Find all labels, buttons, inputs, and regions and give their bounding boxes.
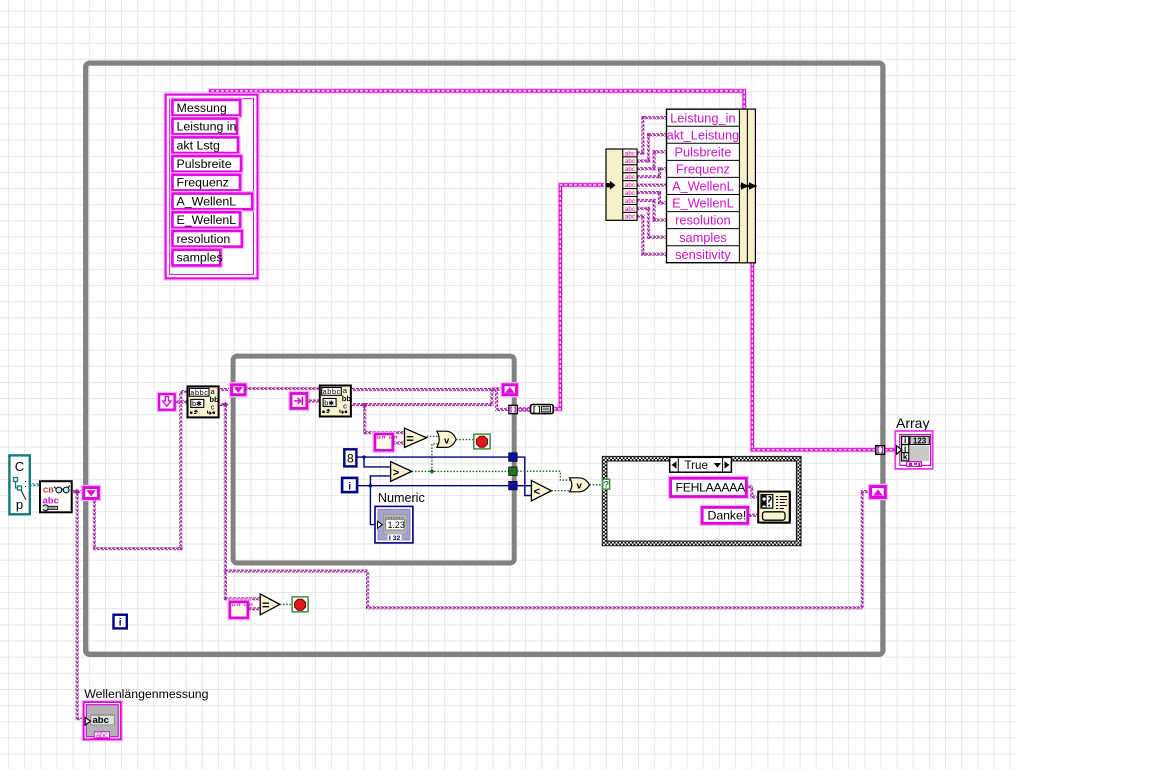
wire: build-array up to index array input: [553, 185, 604, 409]
svg-text:b✱: b✱: [192, 399, 202, 408]
string element "Pulsbreite": [173, 156, 242, 172]
tab constant: [291, 394, 307, 409]
case selector terminal ?: [603, 479, 610, 490]
svg-text:abc: abc: [625, 182, 636, 189]
inner loop iteration terminal i: [342, 478, 357, 492]
svg-text:Leistung in: Leistung in: [177, 120, 237, 134]
stop button 1: [474, 434, 490, 449]
outer right shift register: [871, 487, 886, 498]
wire: green tunnel to or2: [517, 471, 603, 491]
empty string constant 1: [375, 434, 398, 450]
svg-text:p: p: [16, 497, 23, 512]
svg-text:samples: samples: [679, 230, 727, 245]
svg-text:Pulsbreite: Pulsbreite: [177, 157, 232, 171]
svg-text:abc: abc: [625, 206, 636, 213]
case selector label "True": [670, 457, 732, 472]
string element "A_WellenL": [173, 194, 253, 210]
junction dot: [362, 455, 365, 458]
array tunnel [] on inner loop border: [509, 405, 517, 413]
wire: gt output (green dotted) to green tunnel with branch up to or1: [412, 444, 509, 472]
svg-text:resolution: resolution: [177, 232, 231, 246]
svg-text:v: v: [444, 435, 450, 446]
blue tunnel 1 (8): [509, 453, 517, 461]
case structure: [602, 456, 801, 545]
wire: outer SR down, right, up into match node 1: [93, 390, 188, 550]
svg-text:8: 8: [347, 451, 354, 465]
wire: Danke! to dialog: [748, 514, 759, 517]
svg-text:Array: Array: [896, 415, 929, 431]
wire: scan node to outer left shift register: [72, 490, 85, 493]
svg-text:abc: abc: [625, 214, 636, 221]
scan/match node (CB abc glasses wrench): [40, 481, 72, 512]
svg-text:Danke!: Danke!: [708, 509, 747, 523]
wire: match1 output a to inner left shift register: [219, 388, 232, 391]
string constant FEHLAAAAA: [671, 478, 747, 496]
array tunnel on outer loop border: [876, 446, 885, 455]
svg-text:=: =: [262, 597, 270, 612]
inner left shift register: [232, 385, 245, 395]
build array node: [531, 405, 554, 414]
string element "Messung": [173, 100, 241, 116]
svg-text:abc: abc: [625, 174, 636, 181]
numeric constant 8: [344, 449, 356, 466]
string element "Leistung in": [173, 119, 237, 135]
svg-text:A_WellenL: A_WellenL: [177, 195, 237, 209]
svg-text:C: C: [15, 459, 24, 474]
svg-text:i: i: [348, 481, 351, 492]
greater-than comparator: [391, 462, 412, 482]
bundle-by-name node: [667, 109, 756, 263]
junction diamond: [74, 489, 80, 495]
wire: array constant to bundle (dashed pink array wire): [211, 91, 745, 109]
string element "akt Lstg": [173, 137, 239, 153]
svg-text:123: 123: [913, 436, 927, 445]
string element "resolution": [173, 231, 242, 247]
svg-text:Frequenz: Frequenz: [177, 176, 229, 190]
svg-text:c: c: [343, 402, 347, 411]
svg-text:E_WellenL: E_WellenL: [177, 213, 237, 227]
svg-text:b✱: b✱: [324, 398, 334, 407]
svg-text:abc: abc: [625, 166, 636, 173]
numeric indicator Numeric: [375, 506, 413, 543]
svg-text:resolution: resolution: [675, 213, 731, 228]
outer while loop frame: [86, 63, 883, 654]
svg-text:i: i: [119, 618, 122, 629]
equal comparator (bottom): [260, 594, 280, 615]
path constant C:\p: [9, 455, 29, 514]
svg-text:c: c: [211, 403, 215, 412]
string element "E_WellenL": [173, 212, 241, 228]
svg-text:abc: abc: [625, 158, 636, 165]
svg-text:abc: abc: [96, 730, 108, 739]
svg-text:abc: abc: [93, 715, 109, 726]
svg-text:abbc: abbc: [323, 387, 341, 396]
less-than comparator: [531, 481, 551, 501]
wire: LF const to match node 1: [175, 400, 188, 403]
svg-text:CB: CB: [43, 486, 54, 495]
wire: FEHLAAAAA to dialog: [746, 485, 758, 498]
array indicator: [895, 431, 932, 469]
outer left shift register: [84, 488, 99, 499]
string constant Danke!: [702, 507, 748, 523]
svg-text:>: >: [393, 467, 399, 479]
svg-text:<: <: [534, 486, 540, 498]
string element "samples": [173, 250, 223, 266]
inner while loop frame: [233, 356, 514, 563]
wire: junction down to string control (dotted): [76, 492, 79, 720]
or gate 1: [437, 431, 456, 447]
wire: eq1 to or1 (green dotted): [427, 435, 439, 437]
wire: match1 output c down; branch to eq2 and long wire to outer right SR: [219, 402, 870, 610]
outer loop iteration terminal i: [114, 615, 127, 629]
svg-text::: :: [24, 478, 27, 490]
blue tunnel 2 (i): [509, 481, 517, 489]
or gate 2: [570, 478, 590, 492]
stop button 2: [292, 597, 308, 612]
bundle output arrows: [741, 182, 757, 190]
wire: tab constant to match node 2: [307, 399, 320, 402]
svg-text:Messung: Messung: [177, 101, 227, 115]
svg-text:E_WellenL: E_WellenL: [672, 196, 734, 211]
green junction diamond: [429, 469, 434, 474]
string control Wellenlaengenmessung: [84, 702, 121, 739]
svg-text:sensitivity: sensitivity: [675, 247, 731, 262]
wire: eq2 to stop2 (green dotted): [280, 603, 292, 605]
wire: bundle output down and right to array tunnel: [752, 263, 897, 450]
blue wires from 8: [356, 457, 508, 467]
svg-text:True: True: [685, 459, 708, 472]
svg-text:v: v: [577, 481, 583, 492]
string element "Frequenz": [173, 175, 241, 191]
svg-text:?: ?: [603, 480, 609, 490]
svg-text:Pulsbreite: Pulsbreite: [674, 145, 731, 160]
wire: path constant to scan node (teal): [30, 483, 40, 486]
wires: index array outputs to bundle rows: [637, 116, 667, 256]
match pattern node 2: [320, 386, 352, 417]
wire: or1 to stop1 (green dotted): [456, 439, 474, 441]
svg-text:=: =: [406, 431, 414, 446]
svg-text:akt Lstg: akt Lstg: [177, 138, 221, 152]
equal comparator 1: [405, 428, 427, 447]
svg-text:1.23: 1.23: [388, 520, 405, 530]
index array node: [606, 149, 637, 221]
svg-text:abc: abc: [625, 190, 636, 197]
svg-text:FEHLAAAAA: FEHLAAAAA: [676, 481, 747, 495]
wire: match2 output a right then down to array tunnel: [351, 388, 509, 411]
svg-text:abc: abc: [625, 198, 636, 205]
svg-text:akt_Leistung: akt_Leistung: [667, 127, 740, 142]
one button dialog node: [758, 492, 790, 523]
inner right shift register: [503, 385, 516, 395]
svg-text:Frequenz: Frequenz: [676, 162, 730, 177]
junction dot: [369, 484, 372, 487]
line feed constant: [159, 394, 175, 410]
svg-text:Numeric: Numeric: [378, 491, 425, 505]
svg-text:A_WellenL: A_WellenL: [672, 179, 734, 194]
svg-text:abbc: abbc: [190, 388, 208, 397]
wire: sc2 to eq2: [248, 607, 260, 610]
blue wires right of inner loop to lt comparator: [517, 457, 531, 495]
svg-text:I 32: I 32: [389, 535, 401, 542]
green tunnel (boolean): [509, 467, 517, 475]
svg-text:abc: abc: [625, 150, 636, 157]
svg-text:k: k: [903, 452, 908, 462]
blue wires from i: [357, 476, 509, 525]
svg-text:[ ]: [ ]: [533, 405, 541, 414]
empty string constant (bottom): [230, 602, 253, 618]
wire: inner SR to match node 2: [245, 387, 320, 390]
wire: tunnel to build array (bubble chain): [519, 408, 531, 411]
match pattern node 1: [188, 0, 238, 417]
string array constant (Messung...samples): [166, 95, 258, 279]
wire: match2 output c right, branch down to eq1, up to inner right SR: [351, 387, 502, 434]
svg-text:Wellenlängenmessung: Wellenlängenmessung: [84, 687, 208, 701]
svg-text:Leistung_in: Leistung_in: [670, 110, 735, 125]
svg-text:samples: samples: [177, 251, 223, 265]
wire: sc1 to eq1: [393, 441, 405, 444]
